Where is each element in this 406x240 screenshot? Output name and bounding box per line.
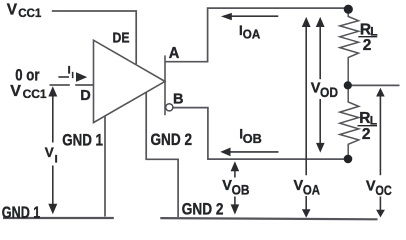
svg-text:A: A [169, 45, 180, 62]
svg-text:I: I [72, 70, 74, 80]
svg-text:CC1: CC1 [23, 87, 47, 101]
svg-text:DE: DE [113, 29, 130, 46]
svg-text:GND 2: GND 2 [151, 131, 193, 149]
svg-text:V: V [45, 145, 54, 160]
svg-text:OB: OB [243, 131, 262, 146]
svg-text:V: V [10, 83, 21, 100]
svg-text:GND 2: GND 2 [182, 201, 224, 219]
svg-text:OD: OD [320, 85, 338, 100]
svg-text:V: V [7, 2, 18, 19]
svg-text:V: V [366, 179, 376, 195]
svg-text:2: 2 [362, 126, 371, 143]
svg-text:OB: OB [232, 183, 250, 198]
svg-text:OC: OC [375, 183, 392, 198]
svg-text:L: L [370, 113, 377, 127]
svg-text:I: I [55, 153, 58, 165]
svg-text:OA: OA [303, 183, 320, 198]
svg-text:D: D [80, 88, 90, 104]
svg-text:GND 1: GND 1 [62, 131, 103, 149]
svg-text:OA: OA [243, 27, 261, 42]
svg-text:I: I [68, 65, 71, 77]
svg-text:2: 2 [363, 37, 372, 54]
svg-text:CC1: CC1 [18, 6, 42, 20]
svg-text:0 or: 0 or [15, 66, 40, 84]
svg-text:B: B [173, 92, 183, 108]
svg-text:GND 1: GND 1 [2, 204, 41, 221]
